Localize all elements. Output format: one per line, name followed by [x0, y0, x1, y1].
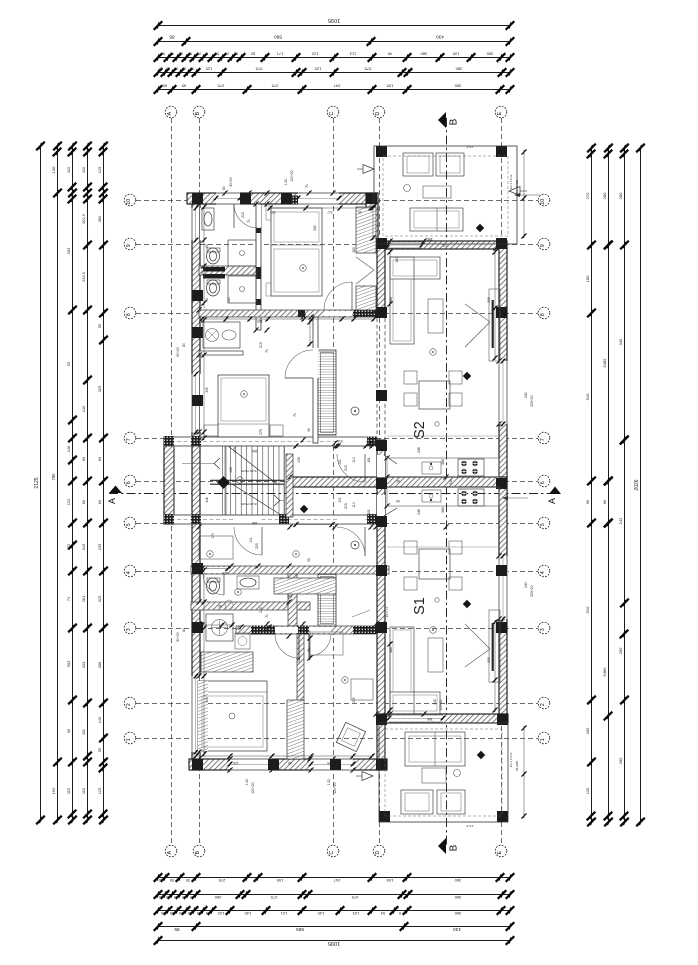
svg-text:1: 1: [540, 738, 546, 741]
svg-text:35: 35: [174, 67, 178, 71]
svg-text:50: 50: [215, 52, 219, 56]
svg-text:45: 45: [387, 52, 392, 57]
svg-text:215: 215: [297, 657, 301, 663]
svg-text:50: 50: [161, 52, 165, 56]
svg-text:575: 575: [351, 895, 358, 900]
svg-text:S1: S1: [412, 597, 428, 615]
svg-text:225+20: 225+20: [530, 585, 534, 597]
svg-text:9: 9: [399, 911, 401, 915]
svg-text:71: 71: [265, 349, 269, 353]
svg-text:125: 125: [314, 67, 321, 72]
svg-text:1095: 1095: [328, 17, 340, 23]
svg-text:20: 20: [166, 895, 170, 899]
svg-text:30: 30: [159, 895, 163, 899]
svg-text:105: 105: [386, 878, 393, 883]
svg-text:35: 35: [174, 895, 178, 899]
svg-text:90: 90: [307, 558, 311, 562]
svg-text:215: 215: [344, 503, 348, 509]
svg-text:6: 6: [540, 481, 546, 484]
svg-text:580: 580: [274, 34, 282, 40]
svg-text:25: 25: [179, 52, 183, 56]
svg-text:71: 71: [66, 597, 71, 601]
svg-text:240: 240: [524, 582, 528, 588]
svg-text:5485: 5485: [602, 667, 607, 677]
svg-text:115: 115: [66, 788, 71, 794]
svg-text:325: 325: [97, 386, 102, 393]
svg-text:25: 25: [225, 52, 229, 56]
svg-text:225: 225: [222, 571, 228, 575]
svg-text:275: 275: [271, 84, 278, 89]
svg-text:7: 7: [126, 438, 132, 441]
svg-text:80: 80: [222, 186, 226, 190]
svg-text:45: 45: [358, 210, 362, 214]
svg-text:110: 110: [352, 457, 356, 463]
svg-text:345: 345: [618, 338, 623, 345]
svg-text:C: C: [329, 851, 335, 855]
svg-text:10: 10: [540, 199, 546, 205]
svg-text:115: 115: [66, 167, 71, 173]
svg-text:85: 85: [169, 34, 175, 40]
svg-text:A: A: [167, 112, 173, 116]
svg-text:17+5: 17+5: [466, 145, 473, 149]
svg-text:3: 3: [540, 628, 546, 631]
svg-text:71: 71: [265, 614, 269, 618]
svg-text:380: 380: [455, 67, 462, 72]
svg-text:180: 180: [585, 275, 590, 282]
svg-text:120: 120: [327, 761, 333, 765]
svg-text:155: 155: [276, 878, 283, 883]
svg-text:180: 180: [585, 727, 590, 734]
svg-text:586: 586: [296, 926, 304, 932]
svg-text:9: 9: [126, 244, 132, 247]
svg-text:235: 235: [97, 544, 102, 551]
svg-text:240: 240: [449, 479, 453, 485]
svg-text:E: E: [497, 851, 503, 855]
svg-text:345: 345: [205, 697, 209, 703]
svg-text:140: 140: [81, 405, 86, 412]
svg-text:71: 71: [305, 184, 309, 188]
svg-text:340: 340: [313, 225, 317, 231]
svg-text:113: 113: [349, 52, 356, 57]
svg-text:366: 366: [427, 717, 433, 721]
svg-text:B: B: [195, 851, 201, 855]
svg-text:430: 430: [453, 926, 461, 932]
svg-text:386: 386: [441, 507, 445, 513]
svg-text:7: 7: [540, 438, 546, 441]
svg-text:50: 50: [161, 911, 165, 915]
svg-text:280: 280: [602, 192, 607, 199]
svg-text:55: 55: [170, 878, 174, 882]
svg-text:172: 172: [66, 544, 71, 551]
svg-text:179: 179: [233, 447, 237, 453]
svg-text:260: 260: [214, 895, 221, 900]
svg-text:160: 160: [352, 247, 356, 253]
svg-text:30: 30: [190, 67, 194, 71]
svg-text:146: 146: [205, 497, 209, 503]
svg-text:240: 240: [524, 392, 528, 398]
svg-text:80: 80: [218, 604, 222, 608]
svg-text:4: 4: [126, 571, 132, 574]
svg-text:20: 20: [182, 895, 186, 899]
svg-text:60: 60: [205, 244, 209, 248]
svg-text:90+20: 90+20: [176, 632, 180, 642]
svg-text:115: 115: [81, 167, 86, 173]
svg-text:360: 360: [454, 878, 461, 883]
svg-text:160: 160: [395, 257, 399, 263]
svg-text:92: 92: [66, 361, 71, 366]
svg-text:790: 790: [51, 473, 56, 481]
svg-text:261: 261: [81, 596, 86, 603]
svg-text:246: 246: [417, 509, 421, 515]
svg-text:101: 101: [367, 457, 371, 463]
svg-text:430: 430: [436, 34, 444, 40]
svg-text:B: B: [195, 112, 201, 116]
svg-text:345: 345: [205, 387, 209, 393]
svg-text:90: 90: [205, 298, 209, 302]
svg-text:130: 130: [51, 166, 56, 173]
svg-text:125: 125: [97, 167, 102, 174]
svg-text:48+905: 48+905: [515, 761, 519, 771]
svg-text:9: 9: [206, 52, 208, 56]
svg-text:9: 9: [540, 244, 546, 247]
svg-text:183: 183: [270, 210, 276, 214]
svg-text:2: 2: [126, 703, 132, 706]
svg-text:242: 242: [618, 517, 623, 524]
svg-text:575: 575: [364, 67, 371, 72]
svg-text:5485: 5485: [602, 358, 607, 368]
svg-text:395: 395: [487, 657, 491, 663]
svg-text:8: 8: [126, 313, 132, 316]
svg-text:122: 122: [311, 52, 318, 57]
svg-text:215: 215: [259, 607, 263, 613]
svg-text:105: 105: [386, 84, 393, 89]
svg-text:1: 1: [126, 738, 132, 741]
svg-text:94: 94: [380, 911, 385, 916]
svg-text:225+20: 225+20: [530, 395, 534, 407]
svg-text:217: 217: [327, 210, 333, 214]
svg-text:30: 30: [186, 878, 190, 882]
svg-text:1.20: 1.20: [245, 779, 249, 786]
svg-text:6: 6: [126, 481, 132, 484]
svg-text:71: 71: [293, 413, 297, 417]
svg-text:2: 2: [540, 703, 546, 706]
svg-text:5: 5: [540, 523, 546, 526]
svg-text:S2: S2: [412, 421, 428, 439]
svg-text:55: 55: [97, 324, 102, 328]
svg-text:101: 101: [249, 537, 253, 543]
svg-text:50: 50: [188, 911, 192, 915]
svg-text:120+20: 120+20: [333, 782, 337, 794]
svg-text:140: 140: [227, 297, 231, 303]
svg-text:64: 64: [206, 911, 210, 915]
svg-text:101: 101: [338, 497, 342, 503]
svg-text:386: 386: [441, 459, 445, 465]
svg-text:2m x 17cm: 2m x 17cm: [509, 174, 513, 189]
svg-text:395: 395: [487, 297, 491, 303]
svg-text:120+20: 120+20: [290, 170, 294, 182]
svg-text:90: 90: [307, 428, 311, 432]
svg-text:80: 80: [182, 343, 186, 347]
svg-text:25: 25: [197, 911, 201, 915]
svg-text:303: 303: [66, 660, 71, 667]
svg-text:71: 71: [247, 219, 251, 223]
svg-text:215: 215: [259, 342, 263, 348]
svg-text:139: 139: [229, 467, 233, 473]
svg-text:A: A: [107, 498, 117, 504]
svg-text:386: 386: [389, 297, 393, 303]
svg-text:170: 170: [211, 533, 215, 539]
svg-text:90+20: 90+20: [176, 347, 180, 357]
svg-text:25: 25: [197, 52, 201, 56]
svg-text:225+20: 225+20: [439, 699, 443, 710]
svg-text:360: 360: [454, 911, 461, 916]
svg-text:122: 122: [66, 499, 71, 506]
svg-text:82: 82: [250, 52, 255, 57]
svg-text:275: 275: [259, 429, 263, 435]
svg-text:115: 115: [81, 788, 86, 794]
svg-text:120: 120: [585, 787, 590, 794]
svg-text:360: 360: [454, 84, 461, 89]
svg-text:275: 275: [270, 895, 277, 900]
svg-text:303: 303: [66, 247, 71, 254]
svg-text:D: D: [375, 851, 381, 855]
svg-text:els: els: [200, 271, 204, 275]
svg-text:183: 183: [257, 319, 263, 323]
svg-text:E: E: [497, 112, 503, 116]
svg-text:8x18.75/25: 8x18.75/25: [241, 502, 256, 506]
svg-text:346: 346: [382, 147, 386, 152]
svg-text:3: 3: [126, 628, 132, 631]
svg-text:247: 247: [333, 878, 340, 883]
svg-text:B: B: [449, 844, 460, 851]
svg-text:4: 4: [540, 571, 546, 574]
svg-text:30: 30: [190, 895, 194, 899]
svg-text:2026: 2026: [634, 479, 640, 490]
svg-text:A: A: [547, 498, 557, 504]
svg-text:5: 5: [126, 523, 132, 526]
svg-text:A: A: [167, 851, 173, 855]
svg-text:140: 140: [317, 911, 324, 916]
svg-text:60: 60: [396, 479, 400, 483]
svg-text:85: 85: [182, 84, 186, 89]
svg-text:B: B: [449, 118, 460, 125]
svg-text:225: 225: [255, 543, 259, 549]
svg-text:61: 61: [234, 52, 238, 56]
svg-text:20: 20: [166, 67, 170, 71]
svg-text:510: 510: [585, 393, 590, 400]
svg-text:80: 80: [182, 628, 186, 632]
svg-text:225: 225: [352, 697, 356, 703]
svg-text:122: 122: [217, 911, 224, 916]
svg-text:1.20: 1.20: [327, 779, 331, 786]
svg-text:2125: 2125: [34, 477, 40, 488]
svg-text:125: 125: [205, 67, 212, 72]
svg-text:325: 325: [97, 596, 102, 603]
svg-text:360: 360: [454, 895, 461, 900]
svg-text:17+5: 17+5: [466, 824, 473, 828]
svg-text:510: 510: [585, 606, 590, 613]
svg-text:280: 280: [618, 647, 623, 654]
svg-text:101: 101: [367, 509, 371, 515]
svg-text:50: 50: [188, 52, 192, 56]
svg-text:171: 171: [276, 52, 283, 57]
svg-text:275: 275: [217, 84, 224, 89]
svg-text:8: 8: [540, 313, 546, 316]
svg-text:C: C: [329, 112, 335, 116]
svg-text:90+20: 90+20: [229, 177, 233, 187]
svg-text:101: 101: [338, 459, 342, 465]
svg-text:146: 146: [66, 446, 71, 453]
svg-text:380: 380: [97, 215, 102, 222]
svg-text:2m x 17cm: 2m x 17cm: [509, 752, 513, 767]
svg-text:20: 20: [182, 67, 186, 71]
svg-text:10: 10: [126, 199, 132, 205]
svg-text:139: 139: [297, 457, 301, 463]
svg-text:190: 190: [287, 594, 293, 598]
svg-text:380: 380: [420, 52, 427, 57]
svg-text:111: 111: [81, 729, 86, 735]
svg-text:140: 140: [244, 911, 251, 916]
svg-text:270: 270: [585, 192, 590, 199]
svg-text:2m x 17: 2m x 17: [385, 606, 389, 617]
svg-text:120: 120: [452, 52, 459, 57]
svg-text:232.5: 232.5: [81, 272, 86, 282]
svg-text:30: 30: [159, 67, 163, 71]
svg-text:45: 45: [170, 911, 174, 915]
svg-text:188: 188: [252, 521, 258, 525]
svg-text:280: 280: [618, 192, 623, 199]
svg-text:30: 30: [159, 878, 163, 882]
svg-text:280: 280: [618, 757, 623, 764]
svg-text:85: 85: [174, 926, 180, 932]
svg-text:360: 360: [486, 52, 493, 57]
svg-text:60: 60: [396, 499, 400, 503]
svg-text:388: 388: [97, 662, 102, 669]
svg-text:150: 150: [51, 787, 56, 794]
svg-text:246: 246: [417, 447, 421, 453]
svg-text:98: 98: [288, 761, 292, 765]
svg-text:240: 240: [433, 699, 437, 705]
svg-text:55: 55: [97, 748, 102, 752]
svg-text:120: 120: [233, 761, 239, 765]
svg-text:215: 215: [344, 465, 348, 471]
svg-text:910: 910: [337, 439, 343, 443]
svg-text:125: 125: [97, 788, 102, 795]
svg-text:8x18.75/25: 8x18.75/25: [241, 469, 256, 473]
svg-text:81: 81: [307, 648, 311, 652]
svg-text:386: 386: [389, 647, 393, 653]
svg-text:123: 123: [352, 911, 359, 916]
svg-text:25: 25: [179, 911, 183, 915]
svg-text:120+20: 120+20: [251, 782, 255, 794]
svg-text:184: 184: [252, 449, 258, 453]
svg-text:575: 575: [255, 67, 262, 72]
svg-text:215: 215: [241, 212, 245, 218]
svg-text:247: 247: [333, 84, 340, 89]
svg-text:121: 121: [280, 911, 287, 916]
svg-text:110: 110: [352, 502, 356, 508]
svg-text:225: 225: [442, 243, 448, 247]
svg-text:343: 343: [81, 662, 86, 669]
svg-text:45: 45: [170, 52, 174, 56]
svg-text:366: 366: [427, 237, 433, 241]
svg-text:1.20: 1.20: [284, 179, 288, 186]
svg-text:140: 140: [97, 716, 102, 723]
svg-text:D: D: [375, 112, 381, 116]
svg-text:1095: 1095: [328, 940, 340, 946]
svg-text:202.5: 202.5: [81, 214, 86, 224]
svg-text:345: 345: [81, 544, 86, 551]
svg-text:275: 275: [218, 878, 225, 883]
